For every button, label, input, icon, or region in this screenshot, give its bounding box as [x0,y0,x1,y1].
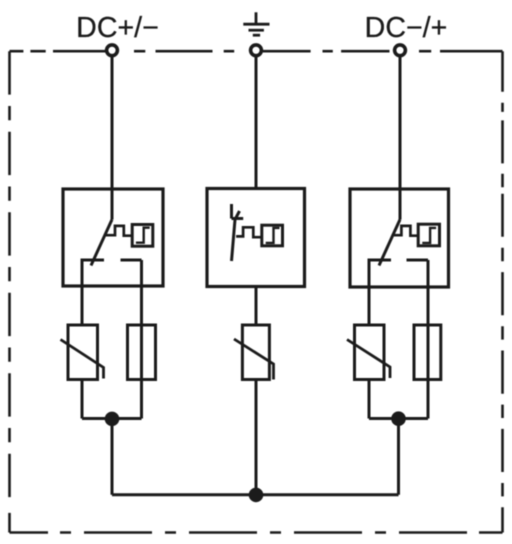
varistor RV3 diagonal [347,340,390,379]
enclosure border right (dash-dot) [501,51,504,532]
switch blade in box 3 [379,220,400,266]
disconnector F3 body [414,325,441,380]
trigger unit box in box 3 [418,224,439,246]
wire: junction bar, column 3 [369,417,428,420]
enclosure border bottom (dash-dot) [10,531,503,534]
wire: column 1 stem to bottom bus [111,419,114,495]
SPD box 3 outline [350,189,449,287]
varistor RV3 body [355,325,385,380]
junction dot, bottom bus center [249,488,264,503]
wire: varistor 2 to bottom bus [255,380,258,495]
mechanical linkage in box 3 [394,226,417,236]
step glyph in trigger box 1 [136,228,150,243]
varistor RV2 diagonal [234,339,274,380]
wire: bottom bus [112,493,399,496]
wire: terminal DC+/- down to SPD box 1 [111,51,114,219]
contact bar (U) in box 1 [82,260,142,325]
wire: column 3 stem to bottom bus [397,419,400,495]
wire: varistor branch upper, column 1 [81,260,84,325]
wire: disconnector branch, column 3 [427,260,430,419]
terminal DC+/- [107,45,118,56]
wire: disconnector branch, column 1 [140,260,143,419]
mechanical linkage in box 1 [105,226,131,236]
varistor RV1 body [68,325,98,380]
step glyph in trigger box 2 [266,228,280,243]
terminal DC-/+ [395,45,406,56]
step glyph in trigger box 3 [422,228,436,243]
trigger unit box in box 2 [262,225,283,246]
switch blade in box 1 [91,220,112,266]
varistor RV1 diagonal [61,340,104,379]
disconnector F1 body [128,325,156,380]
enclosure border top (dash-dot) [10,50,503,53]
varistor RV2 body [242,325,269,380]
wire: varistor branch lower, column 1 [81,380,84,419]
wire: box 2 to varistor 2 [255,287,258,326]
ground symbol (earth) [243,12,269,35]
mechanical linkage in box 2 [236,227,261,237]
SPD box 2 outline [207,189,305,287]
wire: varistor branch lower, column 3 [368,380,371,419]
trigger unit box in box 1 [132,225,153,247]
spark gap electrode (vertical) in box 2 [230,204,233,219]
junction dot, column 3 [391,411,406,426]
SPD box 1 outline [63,189,163,286]
wire: ground terminal down to SPD box 2 [255,51,258,188]
wire: varistor branch upper, column 3 [368,260,371,325]
enclosure border left (dash-dot) [8,51,11,532]
wire: terminal DC-/+ down to SPD box 3 [399,51,402,219]
svg-text:DC+/−: DC+/− [76,12,159,44]
contact bar (U) in box 3 [369,260,428,325]
wire: junction bar, column 1 [82,417,142,420]
spark gap bent blade in box 2 [232,211,240,261]
terminal PE (ground) [251,45,262,56]
junction dot, column 1 [105,412,120,427]
svg-text:DC−/+: DC−/+ [365,12,448,44]
spark gap crossbar in box 2 [232,217,244,220]
